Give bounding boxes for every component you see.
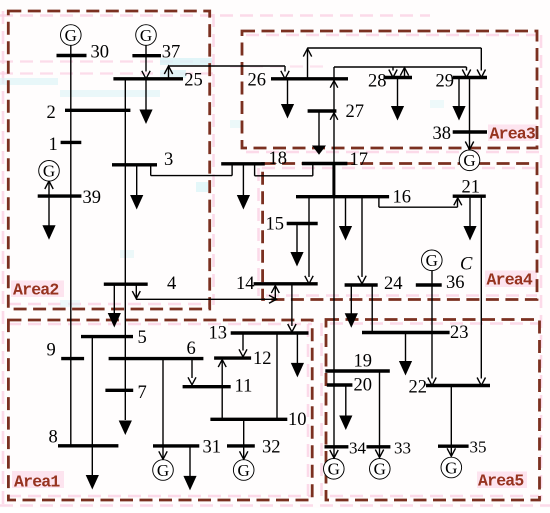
svg-text:G: G — [445, 458, 457, 477]
svg-text:35: 35 — [470, 438, 487, 457]
svg-text:G: G — [374, 460, 386, 479]
svg-text:16: 16 — [393, 188, 412, 208]
svg-text:27: 27 — [346, 102, 365, 122]
svg-text:Area2: Area2 — [13, 281, 59, 300]
svg-text:21: 21 — [462, 178, 481, 198]
svg-text:23: 23 — [450, 323, 469, 343]
svg-text:G: G — [157, 461, 169, 480]
svg-text:10: 10 — [288, 410, 307, 430]
svg-text:34: 34 — [349, 439, 367, 458]
svg-text:19: 19 — [354, 352, 373, 372]
svg-text:15: 15 — [266, 215, 285, 235]
svg-text:14: 14 — [236, 274, 255, 294]
svg-text:38: 38 — [433, 124, 452, 144]
svg-text:Area1: Area1 — [14, 473, 60, 492]
svg-text:33: 33 — [394, 439, 411, 458]
svg-text:17: 17 — [350, 150, 369, 170]
svg-text:12: 12 — [253, 349, 272, 369]
svg-text:20: 20 — [354, 376, 373, 396]
svg-text:22: 22 — [409, 378, 428, 398]
svg-text:G: G — [426, 251, 438, 270]
svg-text:25: 25 — [184, 71, 203, 91]
svg-text:6: 6 — [187, 339, 196, 359]
svg-text:37: 37 — [162, 43, 181, 63]
svg-text:13: 13 — [209, 324, 228, 344]
svg-text:C: C — [460, 255, 473, 275]
svg-text:3: 3 — [164, 150, 173, 170]
svg-text:G: G — [463, 151, 475, 170]
svg-text:24: 24 — [384, 274, 403, 294]
svg-text:28: 28 — [368, 72, 387, 92]
svg-text:39: 39 — [83, 188, 102, 208]
svg-text:5: 5 — [138, 328, 147, 348]
svg-text:8: 8 — [49, 428, 58, 448]
svg-text:4: 4 — [167, 274, 176, 294]
svg-text:7: 7 — [138, 383, 147, 403]
svg-text:32: 32 — [262, 438, 281, 458]
svg-text:36: 36 — [446, 273, 465, 293]
svg-text:Area4: Area4 — [487, 271, 533, 290]
svg-text:Area3: Area3 — [490, 125, 536, 144]
svg-text:9: 9 — [47, 341, 56, 361]
svg-text:Area5: Area5 — [478, 472, 524, 491]
svg-text:11: 11 — [235, 377, 253, 397]
svg-text:G: G — [65, 26, 77, 45]
svg-text:26: 26 — [248, 71, 267, 91]
svg-text:2: 2 — [47, 103, 56, 123]
svg-text:G: G — [140, 26, 152, 45]
svg-text:G: G — [238, 461, 250, 480]
svg-text:G: G — [43, 162, 55, 181]
svg-text:1: 1 — [49, 135, 58, 155]
svg-text:G: G — [328, 460, 340, 479]
svg-text:29: 29 — [436, 72, 455, 92]
svg-text:30: 30 — [91, 43, 110, 63]
svg-text:31: 31 — [203, 438, 222, 458]
svg-text:18: 18 — [269, 149, 288, 169]
